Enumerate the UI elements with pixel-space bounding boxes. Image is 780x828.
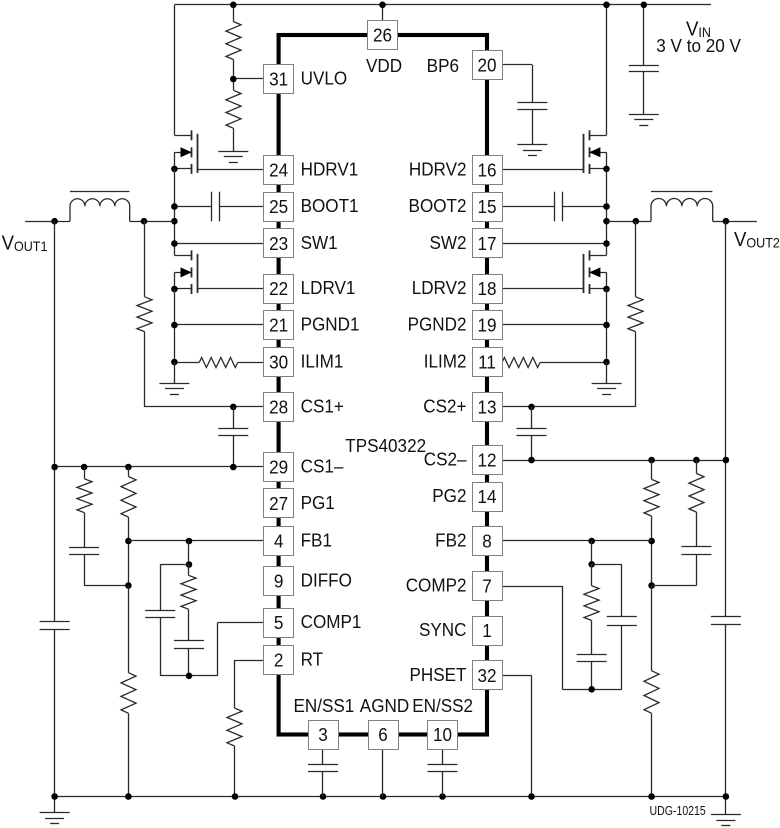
svg-text:28: 28 [269,397,288,418]
wire LDRV2 gate [502,288,584,290]
wire SW2 node vertical [606,169,608,255]
svg-text:RT: RT [301,649,324,670]
pin 10 box [428,721,458,750]
pin 9 box [264,567,294,596]
svg-text:CS2+: CS2+ [423,396,466,417]
svg-text:11: 11 [478,352,496,373]
pin 23 box [264,229,294,258]
node VIN rail input cap [641,2,648,9]
capacitor output bulk right [711,616,741,618]
svg-text:TPS40322: TPS40322 [345,435,426,456]
svg-text:ILIM2: ILIM2 [424,351,467,372]
wire SW2 pin [502,243,607,245]
capacitor BOOT1 [174,206,211,208]
svg-text:17: 17 [477,233,496,254]
pin 32 box [473,661,503,690]
node rail EN/SS2 [439,793,446,800]
wire VDD stub [382,5,384,21]
wire CS2- pin [502,460,726,462]
node rail PHSET [528,793,535,800]
node rail RT [232,793,239,800]
compensation network COMP2 [591,541,593,564]
resistor divider lower right [651,586,653,671]
svg-text:26: 26 [373,25,392,46]
node CS2 sense junction [633,218,640,225]
pin 5 box [264,609,294,638]
svg-text:16: 16 [477,160,496,181]
svg-text:1: 1 [482,620,492,641]
resistor UVLO divider lower [233,79,235,90]
transistor Q2 low-side left [191,250,193,260]
pin 21 box [264,311,294,340]
svg-text:24: 24 [269,160,288,181]
ground bottom left [54,797,56,813]
resistor ILIM1 [174,362,199,364]
node SW1 junction [171,218,178,225]
node rail VOUT1 [51,793,58,800]
wire VOUT1 rail vertical [54,221,56,622]
node VIN rail UVLO divider [230,2,237,9]
capacitor comp C1b [174,640,204,642]
pin 26 box [368,21,398,50]
capacitor EN/SS1 soft-start [322,750,324,765]
IC U1 TPS40322 body outline [279,35,487,735]
pin 24 box [264,156,294,185]
node rail divider1 [125,793,132,800]
svg-text:BP6: BP6 [427,55,459,76]
svg-text:12: 12 [477,450,496,471]
pin 2 box [264,646,294,675]
inductor L1 [25,221,70,223]
svg-text:6: 6 [378,724,388,745]
capacitor EN/SS2 soft-start [442,750,444,765]
capacitor feedforward left [69,547,99,549]
pin 16 box [473,156,503,185]
pin 6 box [369,721,399,750]
node rail VOUT2 [723,793,730,800]
resistor divider upper-B left [125,464,132,471]
svg-text:10: 10 [433,724,452,745]
svg-text:SYNC: SYNC [419,619,467,640]
node SW2 junction [603,218,610,225]
svg-text:BOOT1: BOOT1 [301,195,359,216]
capacitor comp C1a [145,610,175,612]
svg-text:PHSET: PHSET [409,664,466,685]
wire AGND bottom rail [55,796,726,798]
svg-text:23: 23 [269,233,288,254]
pin 18 box [473,275,503,304]
wire PGND vertical left [174,289,176,362]
pin 4 box [264,527,294,556]
capacitor BP6 bypass [502,64,532,66]
pin 27 box [264,489,294,518]
svg-text:EN/SS1: EN/SS1 [294,696,355,717]
capacitor comp C2a [607,616,637,618]
svg-text:8: 8 [482,531,492,552]
svg-text:DIFFO: DIFFO [301,570,352,591]
capacitor comp C2b [577,654,607,656]
wire SW1 node vertical [174,169,176,255]
wire HDRV1 gate [197,169,263,171]
capacitor CS2 filter [528,404,535,411]
pin 12 box [473,446,503,475]
ground BP6 [532,109,534,145]
svg-text:HDRV2: HDRV2 [409,159,467,180]
node rail AGND [380,793,387,800]
svg-text:HDRV1: HDRV1 [301,159,359,180]
svg-text:BOOT2: BOOT2 [409,195,467,216]
wire CS2+ pin [502,406,636,408]
pin 25 box [264,193,294,222]
svg-text:4: 4 [274,531,284,552]
svg-text:14: 14 [477,486,496,507]
svg-text:3: 3 [318,724,328,745]
transistor Q1 high-side left [174,5,176,136]
node CS1 sense junction [141,218,148,225]
svg-text:PGND2: PGND2 [408,314,467,335]
capacitor output bulk left [40,621,70,623]
svg-text:CS1+: CS1+ [301,396,344,417]
wire PHSET [502,675,532,677]
wire VOUT2 rail vertical [725,221,727,617]
capacitor VIN input [643,5,645,66]
wire VIN top rail [174,4,711,6]
wire UVLO pin [233,78,263,80]
wire PGND2 pin [502,324,607,326]
svg-text:27: 27 [269,493,288,514]
resistor divider upper-A left [81,464,88,471]
pin 15 box [473,193,503,222]
svg-text:5: 5 [274,612,284,633]
node VOUT2 junction [723,218,730,225]
svg-text:25: 25 [269,196,288,217]
capacitor BOOT2 [502,206,555,208]
ground power stage right [606,362,608,383]
svg-text:UVLO: UVLO [301,68,348,89]
svg-text:15: 15 [477,196,496,217]
svg-text:LDRV1: LDRV1 [301,277,356,298]
svg-text:VDD: VDD [366,55,402,76]
svg-text:18: 18 [477,278,496,299]
pin 8 box [473,527,503,556]
svg-text:22: 22 [269,278,288,299]
svg-text:13: 13 [477,397,496,418]
transistor Q3 high-side right [606,5,608,136]
ground UVLO divider [233,128,235,151]
svg-text:30: 30 [269,352,288,373]
svg-text:LDRV2: LDRV2 [412,277,467,298]
transistor Q4 low-side right [589,250,591,260]
svg-text:COMP1: COMP1 [301,611,362,632]
svg-text:9: 9 [274,571,284,592]
wire SW1 pin [174,243,263,245]
resistor comp R1 [188,565,190,576]
wire FB2 pin [502,540,652,542]
svg-text:19: 19 [477,315,496,336]
inductor L2 [607,221,652,223]
pin 1 box [473,617,503,646]
pin 28 box [264,393,294,422]
svg-text:FB1: FB1 [301,530,332,551]
wire COMP2 pin [562,586,564,689]
node rail divider2 [648,793,655,800]
pin 31 box [264,65,294,94]
ground bottom right [725,797,727,815]
pin 17 box [473,229,503,258]
svg-text:31: 31 [269,69,288,90]
resistor divider lower left [128,586,130,673]
svg-text:SW2: SW2 [429,232,466,253]
ground VIN capacitor [643,72,645,114]
resistor divider upper-A right [648,457,655,464]
pin 19 box [473,311,503,340]
wire LDRV1 gate [197,288,263,290]
node VOUT1 junction [51,218,58,225]
pin 30 box [264,348,294,377]
svg-text:29: 29 [269,457,288,478]
node VIN rail VDD [379,2,386,9]
wire AGND pin stem [382,750,384,797]
resistor divider upper-B right [693,457,700,464]
svg-text:PG1: PG1 [301,492,335,513]
pin 11 box [473,348,503,377]
pin 20 box [473,51,503,80]
svg-text:CS2–: CS2– [424,449,467,470]
wire PGND1 pin [174,324,263,326]
resistor current sense right [635,221,637,297]
svg-text:3 V to 20 V: 3 V to 20 V [656,36,741,57]
wire COMP1 pin [217,623,219,676]
resistor current sense left [144,221,146,297]
svg-text:SW1: SW1 [301,232,338,253]
svg-text:UDG-10215: UDG-10215 [650,803,707,818]
pin 13 box [473,393,503,422]
capacitor CS1 filter [230,404,237,411]
svg-text:20: 20 [477,55,496,76]
wire CS1+ pin [144,406,264,408]
wire comp bottom right [563,689,622,691]
svg-text:CS1–: CS1– [301,456,344,477]
resistor UVLO divider upper [233,5,235,22]
resistor RT [235,660,264,662]
svg-text:2: 2 [274,650,284,671]
pin 22 box [264,275,294,304]
svg-text:21: 21 [269,315,288,336]
capacitor feedforward right [681,546,711,548]
resistor ILIM2 [502,358,540,368]
wire CS1- pin [55,466,264,468]
compensation network COMP1 [188,541,190,565]
svg-text:COMP2: COMP2 [406,575,467,596]
svg-text:EN/SS2: EN/SS2 [412,696,473,717]
pin 7 box [473,572,503,601]
svg-text:7: 7 [482,576,492,597]
node rail EN/SS1 [320,793,327,800]
svg-text:PG2: PG2 [432,485,466,506]
node VIN rail Q3 drain [603,2,610,9]
wire PGND vertical right [606,289,608,362]
svg-text:FB2: FB2 [435,530,466,551]
node UVLO divider tap [230,76,237,83]
pin 29 box [264,453,294,482]
svg-text:PGND1: PGND1 [301,314,360,335]
svg-text:32: 32 [477,665,496,686]
wire comp bottom left [160,675,218,677]
wire HDRV2 gate [502,169,584,171]
svg-text:AGND: AGND [360,696,409,717]
wire FB1 pin [128,540,263,542]
ground power stage left [174,362,176,383]
resistor comp R2 [591,564,593,585]
pin 3 box [309,721,339,750]
pin 14 box [473,483,503,512]
svg-text:ILIM1: ILIM1 [301,351,344,372]
